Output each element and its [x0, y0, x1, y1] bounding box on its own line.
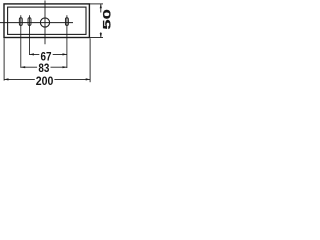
svg-text:83: 83 [38, 61, 49, 75]
dimension line 50 vertical with arrows [100, 4, 102, 38]
svg-text:50: 50 [102, 9, 114, 30]
slot S3 centerline / extension line [66, 15, 68, 68]
slot hole S1 [19, 18, 22, 26]
extension line left for 200 [3, 38, 5, 80]
extension line right for 200 [89, 38, 91, 82]
outer housing rectangle [4, 4, 89, 38]
dimension text 200 [35, 74, 55, 88]
dimension text 67 [39, 50, 52, 64]
slot S2 centerline / extension line [29, 15, 31, 55]
extension line bottom for 50 [90, 37, 103, 39]
dimension text 83 [37, 61, 50, 75]
dimension line 83 [21, 66, 67, 68]
svg-text:200: 200 [36, 74, 54, 88]
inner housing rectangle [8, 7, 86, 34]
dimension line 67 [30, 53, 67, 55]
slot S1 centerline / extension line [20, 15, 22, 68]
extension line top for 50 [90, 3, 103, 5]
dimension line 200 [4, 78, 90, 80]
horizontal centerline [0, 22, 73, 24]
slot hole S2 [28, 18, 31, 26]
circle vertical centerline [44, 1, 46, 45]
mounting circle [40, 18, 49, 27]
slot hole S3 [65, 18, 68, 26]
